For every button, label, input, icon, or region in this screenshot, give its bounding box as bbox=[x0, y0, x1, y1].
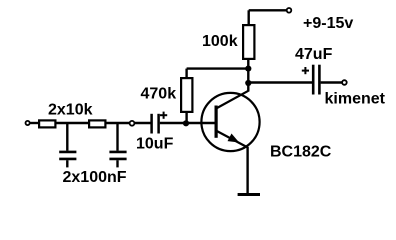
junction base node bbox=[183, 120, 189, 126]
transistor Q1 collector stroke bbox=[217, 91, 248, 108]
capacitor C1 (100nF) bbox=[59, 152, 76, 168]
transistor Q1 base bar bbox=[215, 106, 218, 138]
resistor R1 (10k) bbox=[39, 120, 55, 127]
svg-text:+9-15v: +9-15v bbox=[303, 15, 353, 32]
transistor Q1 emitter arrow bbox=[228, 134, 240, 143]
wire node to C2 bbox=[116, 123, 118, 151]
wire C3 to base of Q1 bbox=[160, 122, 216, 124]
plus polarity of C3 bbox=[160, 112, 167, 119]
wire J1 to R1 bbox=[30, 122, 39, 124]
capacitor C4 (47uF) bbox=[313, 65, 319, 95]
transistor Q1 emitter stroke bbox=[217, 131, 248, 148]
ground bbox=[238, 193, 260, 196]
wire node to C1 bbox=[66, 123, 68, 151]
wire R3 top stub bbox=[185, 69, 187, 78]
wire collector vertical bbox=[247, 60, 249, 92]
svg-text:470k: 470k bbox=[141, 86, 177, 103]
capacitor C2 (100nF) bbox=[109, 152, 126, 168]
resistor R2 (10k) bbox=[89, 120, 105, 127]
svg-text:100k: 100k bbox=[202, 33, 238, 50]
resistor R4 (100k) bbox=[243, 25, 254, 59]
wire to supply terminal bbox=[249, 9, 287, 11]
svg-text:2x10k: 2x10k bbox=[48, 102, 93, 119]
plus polarity of C4 bbox=[302, 67, 309, 74]
capacitor C3 (10uF) bbox=[152, 114, 159, 134]
wire junction to R3 bbox=[185, 113, 187, 123]
wire emitter to ground bbox=[246, 147, 248, 194]
svg-text:47uF: 47uF bbox=[295, 46, 333, 63]
wire output node to C4 bbox=[248, 81, 312, 83]
wire R1 to R2 bbox=[57, 122, 90, 124]
wire C4 to output terminal bbox=[321, 81, 343, 83]
svg-text:kimenet: kimenet bbox=[325, 91, 386, 108]
output terminal kimenet bbox=[342, 80, 347, 85]
input terminal J1 bbox=[26, 121, 30, 125]
svg-text:2x100nF: 2x100nF bbox=[63, 169, 127, 186]
resistor R3 (470k) bbox=[181, 78, 192, 112]
junction output node bbox=[245, 80, 251, 86]
svg-text:BC182C: BC182C bbox=[270, 144, 332, 161]
wire R3 to collector node bbox=[187, 67, 249, 69]
svg-text:10uF: 10uF bbox=[136, 136, 174, 153]
wire R2 to node B bbox=[107, 122, 151, 124]
junction collector-feedback node bbox=[245, 66, 251, 72]
transistor Q1 circle bbox=[201, 93, 259, 151]
node B (open connector) bbox=[130, 121, 135, 126]
wire R4 top stub bbox=[247, 10, 249, 25]
supply terminal +9-15v bbox=[287, 8, 292, 13]
